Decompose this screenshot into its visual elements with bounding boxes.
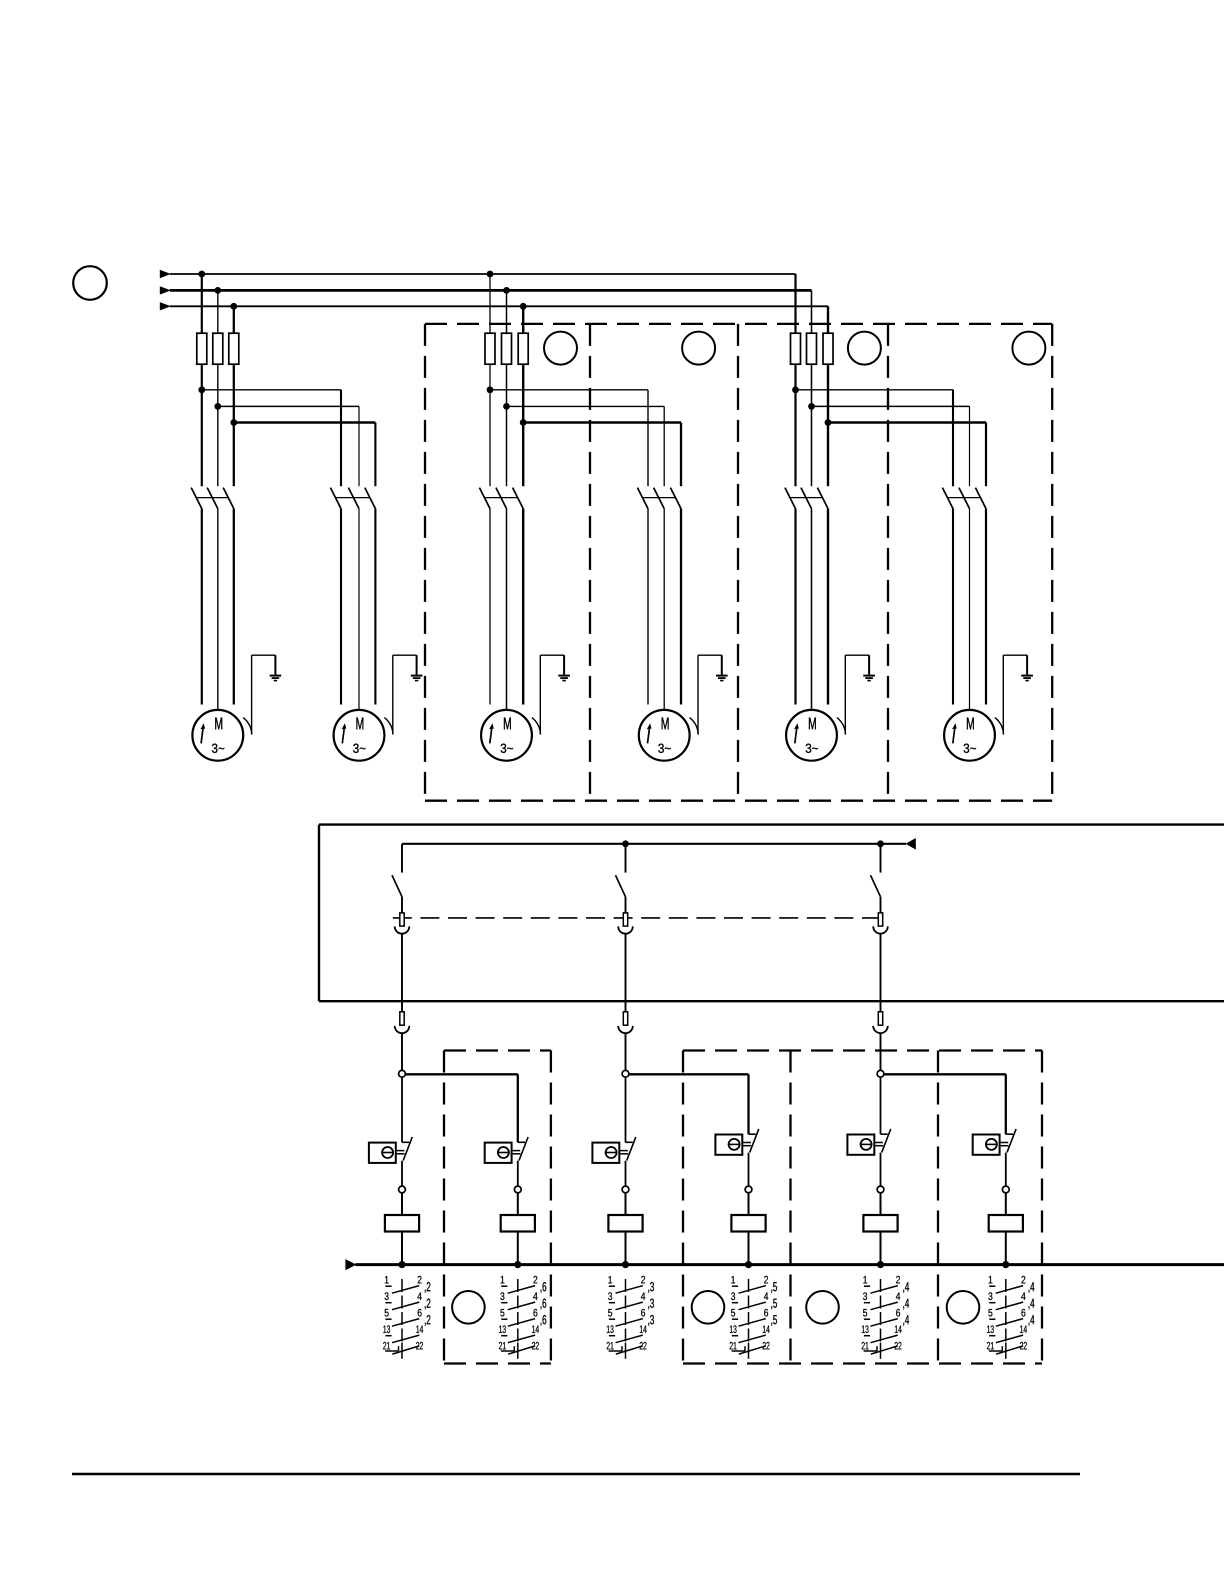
wire node to coil 6 xyxy=(1005,1193,1007,1215)
wire feed 3 through frame xyxy=(880,934,882,1012)
wire contactor to motor M3 xyxy=(522,509,524,705)
lower dashed box A xyxy=(444,1051,551,1364)
wire fuse to branch group 3 phase 1 xyxy=(794,364,796,390)
wire overload to node 2 xyxy=(517,1161,519,1187)
wire feed 2 to connector xyxy=(625,897,627,913)
ground motor M5 xyxy=(863,676,875,681)
wire coil 4 to return bus xyxy=(748,1232,750,1265)
wire feed 3 to node xyxy=(880,1033,882,1070)
fuse F3.3 xyxy=(823,333,833,364)
wire fuse to branch group 3 phase 3 xyxy=(827,364,829,422)
junction branch group 2 phase 2 xyxy=(503,403,510,410)
wire branch horizontal group 3 phase 3 xyxy=(828,421,986,423)
wire branch to contactor group 1 phase 2 xyxy=(217,406,219,486)
junction branch group 3 phase 2 xyxy=(808,403,815,410)
wire branch to contactor group 3 phase 1 xyxy=(794,390,796,486)
wire motor M3 earth lead xyxy=(532,655,564,734)
motor M3 xyxy=(481,710,532,761)
auxiliary contact block K1 contacts 1-2 3-4 5-6 13-14 21-22 xyxy=(383,1276,430,1359)
wire contactor to motor M6 xyxy=(985,509,987,705)
connector X2.1 socket xyxy=(618,926,633,933)
node feed 3 split xyxy=(877,1070,884,1077)
wire contactor to motor M2 xyxy=(358,509,360,710)
wire feed 1 main drop xyxy=(401,1077,403,1142)
wire motor M1 earth lead xyxy=(243,655,275,734)
fuse F2.1 xyxy=(485,333,495,364)
contactor Q6 main contacts xyxy=(942,488,986,509)
upper enclosure divider 1 xyxy=(589,324,591,801)
lower box divider 2 xyxy=(937,1051,939,1364)
wire contactor to motor M2 xyxy=(340,509,342,705)
motor M1 xyxy=(192,710,243,761)
wire supply rail L2 xyxy=(170,289,812,292)
overload relay F2 trip box xyxy=(485,1143,521,1163)
junction tap L2 group 1 xyxy=(214,287,221,294)
wire branch to contactor group 2 phase 3 xyxy=(522,423,524,487)
wire branch horizontal group 3 phase 2 xyxy=(812,405,970,407)
wire node to coil 5 xyxy=(880,1193,882,1215)
wire drop group 2 phase 2 xyxy=(663,406,665,486)
footer rule xyxy=(72,1473,1080,1475)
lower box divider 1 xyxy=(789,1051,791,1364)
wire feed 3 branch drop xyxy=(1005,1074,1007,1134)
junction branch group 2 phase 1 xyxy=(487,386,494,393)
switch S1 xyxy=(392,875,402,897)
contactor Q1 main contacts xyxy=(191,488,234,509)
wire coil 5 to return bus xyxy=(880,1232,882,1265)
wire feed 3 branch horizontal xyxy=(884,1073,1006,1075)
auxiliary contact block K4 contacts 1-2 3-4 5-6 13-14 21-22 xyxy=(730,1276,777,1359)
wire feed 1 to node xyxy=(401,1033,403,1070)
junction tap L1 group 2 xyxy=(487,271,494,278)
node A page reference circle xyxy=(73,266,107,300)
wire feed 2 through frame xyxy=(625,934,627,1012)
wire feed 1 branch horizontal xyxy=(405,1073,517,1075)
wire feed 1 to connector xyxy=(401,897,403,913)
wire feed 3 main drop xyxy=(880,1077,882,1134)
dashed interlock line xyxy=(393,917,885,919)
wire fuse to branch group 1 phase 1 xyxy=(201,364,203,390)
contactor coil K3 xyxy=(608,1215,642,1232)
wire contactor to motor M5 xyxy=(794,509,796,705)
junction branch group 1 phase 3 xyxy=(230,419,237,426)
junction control bus feed 2 xyxy=(622,840,629,847)
wire tap drop group 3 phase 2 xyxy=(811,290,813,334)
connector X3.1 socket xyxy=(873,926,888,933)
node feed 1 split xyxy=(399,1070,406,1077)
pump label circle 4 xyxy=(1012,332,1045,365)
wire branch to contactor group 2 phase 1 xyxy=(489,390,491,486)
junction control bus feed 3 xyxy=(877,840,884,847)
contactor Q3 main contacts xyxy=(479,488,523,509)
wire branch horizontal group 1 phase 2 xyxy=(218,405,359,407)
motor M4 xyxy=(639,710,690,761)
wire contactor to motor M4 xyxy=(647,509,649,705)
upper dashed enclosure box xyxy=(425,324,1052,801)
node branch 4 xyxy=(745,1186,752,1193)
control frame box xyxy=(319,825,1224,1002)
overload relay F1 trip box xyxy=(369,1143,405,1163)
wire branch to contactor group 3 phase 3 xyxy=(827,423,829,487)
junction return bus branch 5 xyxy=(877,1261,884,1268)
wire contactor to motor M4 xyxy=(680,509,682,705)
overload relay F3 trip box xyxy=(592,1143,628,1163)
connector X2.2 pin xyxy=(623,1012,627,1025)
connector X2.2 socket xyxy=(618,1026,633,1033)
wire supply rail L1 entry arrow xyxy=(160,270,171,278)
fuse F2.2 xyxy=(502,333,512,364)
wire tap drop group 1 phase 3 xyxy=(233,306,235,334)
wire tap drop group 3 phase 3 xyxy=(827,306,829,334)
wire branch to contactor group 3 phase 2 xyxy=(811,406,813,486)
contactor Q4 main contacts xyxy=(637,488,681,509)
wire feed 1 from bus xyxy=(401,844,403,873)
wire branch to contactor group 1 phase 1 xyxy=(201,390,203,486)
wire return bus xyxy=(355,1263,1224,1266)
wire contactor to motor M5 xyxy=(811,509,813,710)
wire contactor to motor M1 xyxy=(217,509,219,710)
overload relay F5 trip box xyxy=(847,1135,883,1155)
connector X1.1 pin xyxy=(400,913,404,926)
wire feed 2 branch drop xyxy=(747,1074,749,1134)
wire contactor to motor M1 xyxy=(201,509,203,705)
overload relay F3 NC contact xyxy=(626,1137,636,1161)
fuse F1.1 xyxy=(197,333,207,364)
wire feed 3 from bus xyxy=(880,844,882,873)
wire drop group 1 phase 1 xyxy=(340,390,342,486)
overload relay F6 NC contact xyxy=(1006,1129,1016,1153)
wire coil 3 to return bus xyxy=(625,1232,627,1265)
wire drop group 2 phase 3 xyxy=(680,423,682,487)
wire drop group 3 phase 2 xyxy=(969,406,971,486)
contactor label circle 3 xyxy=(806,1291,839,1324)
wire supply rail L1 xyxy=(170,273,796,275)
contactor label circle 2 xyxy=(692,1291,725,1324)
wire contactor to motor M6 xyxy=(952,509,954,705)
connector X3.2 pin xyxy=(878,1012,882,1025)
pump label circle 3 xyxy=(848,332,881,365)
wire node to coil 1 xyxy=(401,1193,403,1215)
pump label circle 2 xyxy=(682,332,715,365)
wire feed 1 through frame xyxy=(401,934,403,1012)
fuse F1.3 xyxy=(229,333,239,364)
wire supply rail L2 entry arrow xyxy=(160,286,171,294)
wire branch horizontal group 2 phase 2 xyxy=(507,405,665,407)
contactor coil K4 xyxy=(731,1215,765,1232)
wire motor M5 earth lead xyxy=(837,655,869,734)
junction return bus branch 3 xyxy=(622,1261,629,1268)
wire fuse to branch group 1 phase 2 xyxy=(217,364,219,406)
wire motor M6 earth lead xyxy=(995,655,1027,734)
wire branch horizontal group 3 phase 1 xyxy=(796,389,954,391)
contactor label circle 1 xyxy=(452,1291,485,1324)
junction return bus branch 6 xyxy=(1002,1261,1009,1268)
node branch 6 xyxy=(1002,1186,1009,1193)
motor M5 xyxy=(786,710,837,761)
junction branch group 2 phase 3 xyxy=(520,419,527,426)
wire contactor to motor M3 xyxy=(506,509,508,710)
lower dashed box B-D xyxy=(683,1051,1042,1364)
wire supply rail L3 xyxy=(170,305,828,307)
overload relay F4 trip box xyxy=(715,1135,751,1155)
contactor label circle 4 xyxy=(947,1291,980,1324)
wire fuse to branch group 2 phase 3 xyxy=(522,364,524,422)
junction tap L1 group 1 xyxy=(198,271,205,278)
wire feed 1 branch drop xyxy=(517,1074,519,1142)
wire tap drop group 3 phase 1 xyxy=(794,274,796,334)
junction return bus branch 1 xyxy=(398,1261,405,1268)
auxiliary contact block K5 contacts 1-2 3-4 5-6 13-14 21-22 xyxy=(862,1276,909,1359)
wire overload to node 4 xyxy=(748,1153,750,1187)
junction return bus branch 4 xyxy=(745,1261,752,1268)
ground motor M1 xyxy=(270,676,282,681)
wire overload to node 3 xyxy=(625,1161,627,1187)
wire contactor to motor M2 xyxy=(374,509,376,705)
wire tap drop group 2 phase 3 xyxy=(522,306,524,334)
fuse F2.3 xyxy=(518,333,528,364)
control bus off-page arrow xyxy=(906,838,916,850)
ground motor M4 xyxy=(716,676,728,681)
wire node to coil 3 xyxy=(625,1193,627,1215)
wire motor M2 earth lead xyxy=(384,655,416,734)
pump label circle 1 xyxy=(544,332,577,365)
wire coil 2 to return bus xyxy=(517,1232,519,1265)
contactor coil K6 xyxy=(989,1215,1023,1232)
node feed 2 split xyxy=(622,1070,629,1077)
contactor Q2 main contacts xyxy=(330,488,375,509)
wire fuse to branch group 2 phase 1 xyxy=(489,364,491,390)
wire feed 2 to node xyxy=(625,1033,627,1070)
wire coil 1 to return bus xyxy=(401,1232,403,1265)
wire overload to node 1 xyxy=(401,1161,403,1187)
junction tap L3 group 2 xyxy=(520,303,527,310)
ground motor M6 xyxy=(1021,676,1033,681)
connector X2.1 pin xyxy=(623,913,627,926)
fuse F1.2 xyxy=(213,333,223,364)
wire feed 2 main drop xyxy=(625,1077,627,1142)
wire tap drop group 2 phase 1 xyxy=(489,274,491,334)
connector X3.1 pin xyxy=(878,913,882,926)
contactor coil K5 xyxy=(863,1215,897,1232)
wire contactor to motor M4 xyxy=(663,509,665,710)
wire branch horizontal group 2 phase 3 xyxy=(523,421,681,423)
fuse F3.1 xyxy=(791,333,801,364)
wire contactor to motor M6 xyxy=(969,509,971,710)
junction branch group 3 phase 3 xyxy=(825,419,832,426)
upper enclosure divider 2 xyxy=(737,324,739,801)
wire fuse to branch group 3 phase 2 xyxy=(811,364,813,406)
overload relay F2 NC contact xyxy=(518,1137,528,1161)
node branch 2 xyxy=(514,1186,521,1193)
upper enclosure divider 3 xyxy=(887,324,889,801)
wire supply rail L3 entry arrow xyxy=(160,302,171,310)
wire drop group 1 phase 2 xyxy=(358,406,360,486)
ground motor M3 xyxy=(558,676,570,681)
node branch 1 xyxy=(399,1186,406,1193)
wire control bus xyxy=(402,843,906,845)
junction branch group 3 phase 1 xyxy=(792,386,799,393)
node branch 3 xyxy=(622,1186,629,1193)
wire feed 3 to connector xyxy=(880,897,882,913)
wire drop group 1 phase 3 xyxy=(374,423,376,487)
wire contactor to motor M5 xyxy=(827,509,829,705)
wire coil 6 to return bus xyxy=(1005,1232,1007,1265)
contactor coil K1 xyxy=(385,1215,419,1232)
junction tap L3 group 1 xyxy=(230,303,237,310)
wire fuse to branch group 1 phase 3 xyxy=(233,364,235,422)
wire branch horizontal group 1 phase 1 xyxy=(202,389,341,391)
wire node to coil 2 xyxy=(517,1193,519,1215)
connector X1.2 pin xyxy=(400,1012,404,1025)
auxiliary contact block K2 contacts 1-2 3-4 5-6 13-14 21-22 xyxy=(499,1276,546,1359)
fuse F3.2 xyxy=(807,333,817,364)
wire fuse to branch group 2 phase 2 xyxy=(506,364,508,406)
wire drop group 3 phase 1 xyxy=(952,390,954,486)
wire node to coil 4 xyxy=(748,1193,750,1215)
wire feed 2 from bus xyxy=(625,844,627,873)
wire drop group 3 phase 3 xyxy=(985,423,987,487)
wire feed 2 branch horizontal xyxy=(629,1073,749,1075)
connector X1.1 socket xyxy=(395,926,410,933)
wire overload to node 5 xyxy=(880,1153,882,1187)
connector X1.2 socket xyxy=(395,1026,410,1033)
junction return bus branch 2 xyxy=(514,1261,521,1268)
junction tap L2 group 2 xyxy=(503,287,510,294)
switch S2 xyxy=(616,875,626,897)
overload relay F4 NC contact xyxy=(749,1129,759,1153)
switch S3 xyxy=(871,875,881,897)
wire overload to node 6 xyxy=(1005,1153,1007,1187)
overload relay F5 NC contact xyxy=(881,1129,891,1153)
wire tap drop group 1 phase 2 xyxy=(217,290,219,334)
return bus off-page arrow xyxy=(345,1259,356,1270)
motor M2 xyxy=(334,710,385,761)
overload relay F1 NC contact xyxy=(402,1137,412,1161)
node branch 5 xyxy=(877,1186,884,1193)
contactor Q5 main contacts xyxy=(785,488,828,509)
wire contactor to motor M3 xyxy=(489,509,491,705)
contactor coil K2 xyxy=(501,1215,535,1232)
wire branch to contactor group 2 phase 2 xyxy=(506,406,508,486)
wire branch horizontal group 2 phase 1 xyxy=(490,389,648,391)
auxiliary contact block K3 contacts 1-2 3-4 5-6 13-14 21-22 xyxy=(607,1276,654,1359)
junction branch group 1 phase 1 xyxy=(198,386,205,393)
wire drop group 2 phase 1 xyxy=(647,390,649,486)
ground motor M2 xyxy=(411,676,423,681)
wire motor M4 earth lead xyxy=(690,655,722,734)
motor M6 xyxy=(944,710,995,761)
auxiliary contact block K6 contacts 1-2 3-4 5-6 13-14 21-22 xyxy=(987,1276,1034,1359)
wire tap drop group 2 phase 2 xyxy=(506,290,508,334)
wire branch to contactor group 1 phase 3 xyxy=(233,423,235,487)
overload relay F6 trip box xyxy=(973,1135,1009,1155)
wire contactor to motor M1 xyxy=(233,509,235,705)
junction branch group 1 phase 2 xyxy=(214,403,221,410)
connector X3.2 socket xyxy=(873,1026,888,1033)
wire branch horizontal group 1 phase 3 xyxy=(234,421,376,424)
wire tap drop group 1 phase 1 xyxy=(201,274,203,334)
